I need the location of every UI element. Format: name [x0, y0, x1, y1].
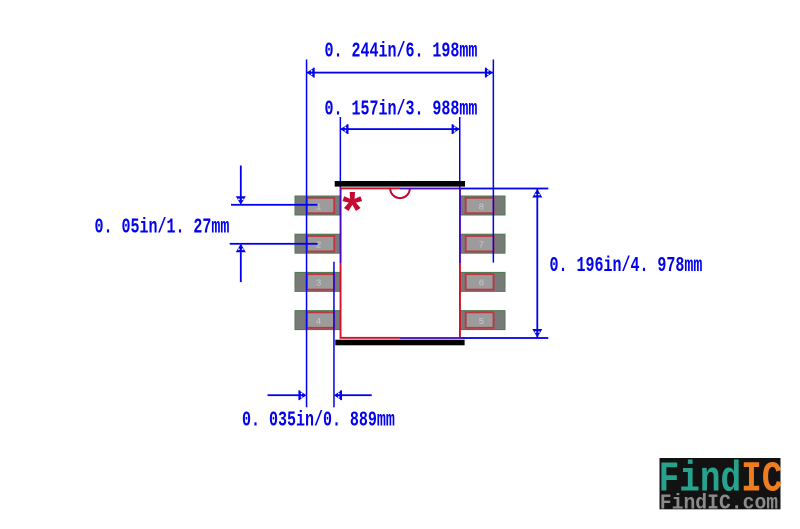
extension line over body top (purple then blue): [400, 188, 461, 190]
extension line body left x=340: [340, 117, 342, 188]
dimension line 0.196in vertical: [532, 189, 542, 338]
dimension line 0.244in horizontal: [307, 68, 494, 78]
dimension line 0.157in horizontal: [340, 124, 459, 134]
pad 4: [295, 311, 341, 330]
extension line body right x=459.7: [459, 117, 461, 188]
svg-text:8: 8: [479, 201, 485, 212]
pad 6: [460, 272, 505, 291]
dimension 0.05in upper arrow: [231, 166, 318, 206]
svg-text:*: *: [337, 188, 368, 245]
svg-text:0. 035in/0. 889mm: 0. 035in/0. 889mm: [242, 408, 395, 432]
extension line left x=306.5: [306, 60, 308, 408]
svg-text:0. 244in/6. 198mm: 0. 244in/6. 198mm: [325, 39, 478, 63]
extension line right x=493: [493, 60, 495, 263]
svg-text:3: 3: [316, 278, 322, 289]
svg-text:4: 4: [316, 316, 322, 327]
svg-text:5: 5: [479, 316, 485, 327]
svg-text:0. 157in/3. 988mm: 0. 157in/3. 988mm: [325, 97, 478, 121]
pad 1: [295, 196, 341, 215]
dimension 0.05in lower arrow: [230, 243, 318, 282]
pin1 notch semicircle: [390, 189, 410, 199]
pad 2: [295, 234, 341, 253]
FindIC logo: [659, 455, 783, 516]
svg-text:FindIC.com: FindIC.com: [660, 492, 778, 516]
dimension 0.035in left arrow: [268, 390, 307, 400]
pad 3: [295, 272, 341, 291]
body bottom black bar: [335, 340, 464, 346]
pad 5: [460, 311, 505, 330]
svg-text:0. 196in/4. 978mm: 0. 196in/4. 978mm: [550, 254, 703, 278]
extension line x=334: [333, 262, 335, 408]
pad 8: [460, 196, 505, 215]
arrowhead notches: [238, 70, 540, 398]
svg-text:2: 2: [316, 240, 322, 251]
svg-text:7: 7: [479, 240, 485, 251]
svg-text:1: 1: [316, 201, 322, 212]
extension line over body bottom (purple then blue): [400, 337, 461, 339]
svg-text:6: 6: [479, 278, 485, 289]
body top black bar: [335, 181, 465, 187]
package body outline: [340, 187, 461, 338]
svg-text:0. 05in/1. 27mm: 0. 05in/1. 27mm: [95, 215, 230, 239]
pad 7: [460, 234, 505, 253]
dimension 0.035in right arrow: [334, 390, 372, 400]
